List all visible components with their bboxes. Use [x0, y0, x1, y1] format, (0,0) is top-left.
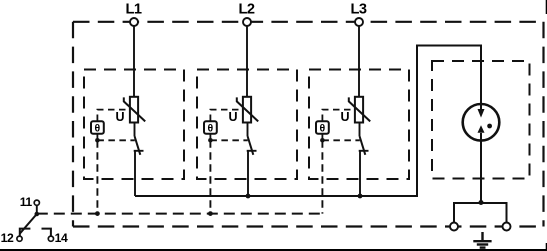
- varistor RV2: [237, 97, 258, 123]
- dashed link theta 2 to varistor: [210, 110, 242, 121]
- varistor RV3: [349, 97, 370, 123]
- thermal disconnect switch 2: [247, 123, 257, 155]
- dashed wire theta 3 down to signalling bus: [321, 140, 323, 213]
- svg-text:12: 12: [1, 231, 14, 245]
- junction PE node: [479, 200, 484, 205]
- node changeover pivot: [35, 212, 40, 217]
- thermal sensor box theta 2: [204, 121, 217, 134]
- varistor module dashed box 2: [197, 70, 297, 180]
- thermal sensor box theta 3: [316, 121, 329, 134]
- changeover switch lever: [20, 214, 37, 234]
- junction theta 2 on signalling bus: [208, 211, 213, 216]
- svg-text:L3: L3: [350, 2, 366, 18]
- contact 14 bracket: [42, 229, 51, 236]
- svg-text:L1: L1: [125, 2, 141, 18]
- thermal disconnect switch 3: [359, 123, 369, 155]
- bottom border line of figure cell: [0, 249, 547, 251]
- svg-text:U: U: [228, 110, 237, 124]
- spark-gap module dashed box: [432, 61, 530, 179]
- varistor module dashed box 1: [84, 70, 184, 180]
- thermal sensor box theta 1: [91, 121, 104, 134]
- dashed link theta 2 to switch lever: [210, 134, 247, 141]
- spark gap / gas discharge tube F1: [463, 104, 500, 141]
- svg-text:U: U: [115, 110, 124, 124]
- svg-text:14: 14: [55, 231, 68, 245]
- wire switch 1 to bus: [134, 151, 136, 196]
- svg-text:θ: θ: [95, 123, 101, 135]
- junction theta 1 on signalling bus: [95, 211, 100, 216]
- varistor module dashed box 3: [309, 70, 409, 180]
- svg-text:θ: θ: [320, 123, 326, 135]
- terminal PE right: [503, 223, 511, 231]
- thermal disconnect switch 1: [134, 123, 144, 155]
- varistor RV1: [124, 97, 145, 123]
- wire L2 terminal to varistor: [246, 26, 248, 97]
- wire L3 terminal to varistor: [358, 26, 360, 97]
- contact 12 bracket: [20, 229, 31, 236]
- terminal 12: [17, 236, 22, 241]
- dashed link theta 3 to varistor: [322, 110, 354, 121]
- terminal PE left: [450, 223, 458, 231]
- right border stub top: [546, 0, 547, 14]
- dashed link theta 1 to varistor: [97, 110, 129, 121]
- wire switch 3 to bus: [359, 151, 361, 196]
- wire PE terminals yoke: [454, 203, 507, 223]
- svg-text:U: U: [340, 110, 349, 124]
- terminal L2: [243, 18, 251, 26]
- terminal L1: [130, 18, 138, 26]
- wire switch 2 to bus: [247, 151, 249, 196]
- remote-signalling dashed wire (horizontal bus to thermal monitors): [37, 213, 323, 215]
- wire common bus to spark gap: [135, 46, 481, 197]
- svg-text:L2: L2: [238, 2, 254, 18]
- dashed wire theta 2 down to signalling bus: [209, 140, 211, 213]
- wire spark gap to PE node: [480, 141, 482, 203]
- junction L3 branch on bus: [358, 194, 363, 199]
- node theta 3 pivot dot: [320, 138, 325, 143]
- svg-text:θ: θ: [208, 123, 214, 135]
- right border stub bottom: [546, 243, 547, 251]
- terminal L3: [355, 18, 363, 26]
- wire terminal 11 to pivot: [36, 205, 38, 214]
- dashed link theta 1 to switch lever: [97, 134, 134, 141]
- wire L1 terminal to varistor: [133, 26, 135, 97]
- dashed link theta 3 to switch lever: [322, 134, 359, 141]
- node theta 1 pivot dot: [95, 138, 100, 143]
- enclosure outline (outer dashed box): [73, 22, 544, 227]
- junction L2 branch on bus: [246, 194, 251, 199]
- node theta 2 pivot dot: [208, 138, 213, 143]
- terminal 14: [48, 236, 53, 241]
- ground (PE earth symbol): [473, 232, 491, 248]
- terminal 11: [34, 200, 39, 205]
- svg-text:11: 11: [20, 195, 33, 209]
- dashed wire theta 1 down to signalling bus: [96, 140, 98, 213]
